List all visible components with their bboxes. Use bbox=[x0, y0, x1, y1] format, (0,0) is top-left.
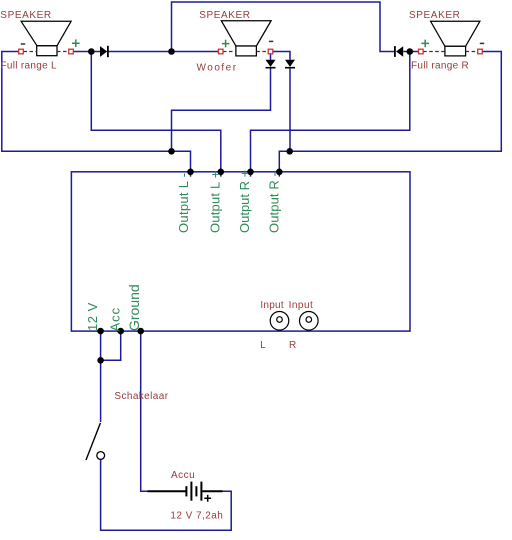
svg-text:Output L -: Output L - bbox=[176, 173, 191, 233]
svg-text:SPEAKER: SPEAKER bbox=[0, 10, 51, 21]
svg-text:Full range L: Full range L bbox=[1, 60, 58, 71]
svg-text:Full range R: Full range R bbox=[411, 60, 469, 71]
svg-text:Output L +: Output L + bbox=[208, 170, 223, 233]
svg-text:L: L bbox=[260, 340, 266, 351]
svg-text:R: R bbox=[289, 340, 296, 351]
svg-text:12 V: 12 V bbox=[85, 302, 100, 331]
svg-text:Woofer: Woofer bbox=[197, 63, 238, 74]
svg-text:SPEAKER: SPEAKER bbox=[409, 10, 460, 21]
svg-text:12 V 7,2ah: 12 V 7,2ah bbox=[170, 511, 223, 522]
svg-text:SPEAKER: SPEAKER bbox=[199, 10, 250, 21]
svg-text:Ground: Ground bbox=[126, 284, 142, 331]
svg-text:Schakelaar: Schakelaar bbox=[114, 391, 168, 402]
svg-text:Accu: Accu bbox=[171, 470, 195, 481]
svg-text:Acc: Acc bbox=[107, 307, 122, 332]
svg-text:Output R +: Output R + bbox=[237, 170, 252, 233]
svg-text:Input: Input bbox=[289, 300, 314, 311]
svg-text:Output R -: Output R - bbox=[266, 172, 281, 233]
svg-text:Input: Input bbox=[260, 300, 284, 311]
